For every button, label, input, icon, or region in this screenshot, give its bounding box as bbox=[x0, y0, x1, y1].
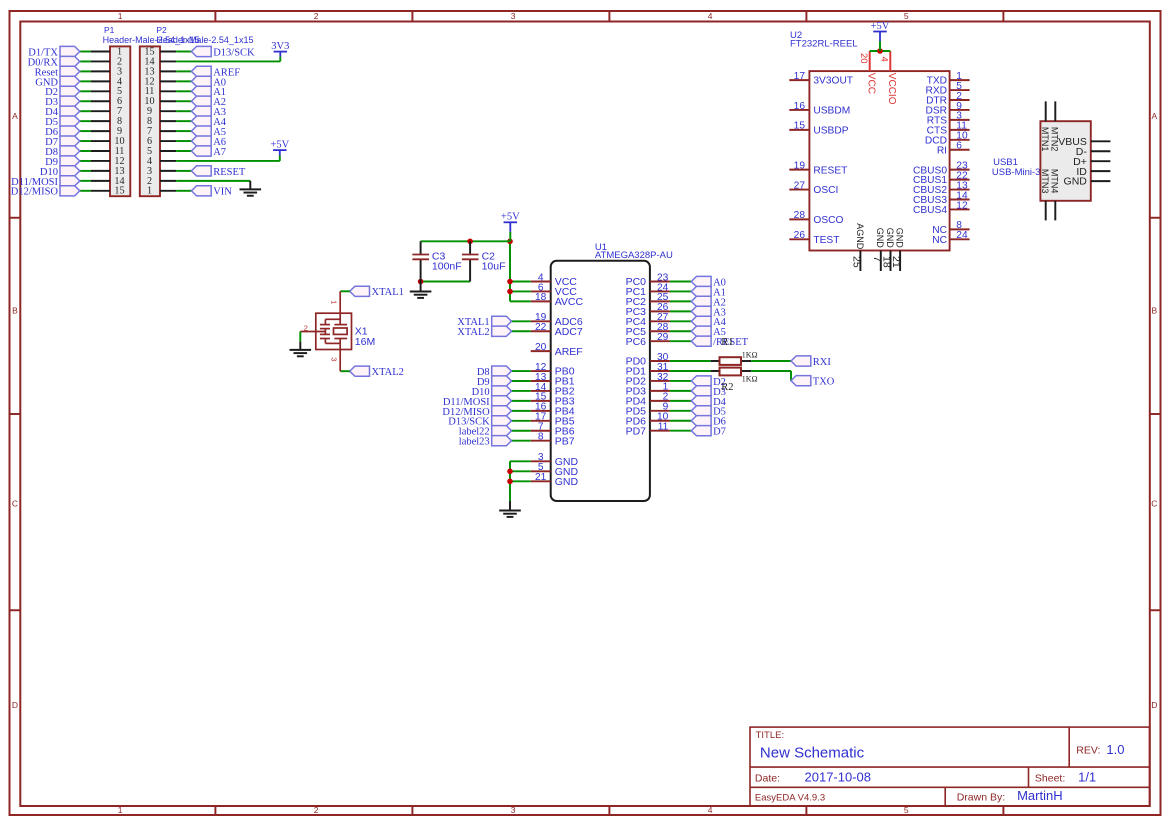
svg-text:OSCI: OSCI bbox=[813, 185, 838, 196]
svg-text:AVCC: AVCC bbox=[555, 296, 584, 308]
svg-text:ADC7: ADC7 bbox=[555, 326, 583, 338]
svg-text:NC: NC bbox=[932, 235, 947, 246]
svg-text:1: 1 bbox=[147, 186, 152, 197]
svg-text:4: 4 bbox=[708, 11, 713, 21]
svg-text:P2: P2 bbox=[156, 25, 167, 35]
svg-text:5: 5 bbox=[904, 11, 909, 21]
svg-text:C: C bbox=[12, 499, 18, 509]
svg-text:FT232RL-REEL: FT232RL-REEL bbox=[790, 39, 858, 50]
svg-text:CBUS4: CBUS4 bbox=[913, 205, 947, 216]
svg-text:3: 3 bbox=[511, 11, 516, 21]
svg-text:P1: P1 bbox=[104, 25, 115, 35]
svg-text:MTN1: MTN1 bbox=[1040, 127, 1050, 151]
svg-text:3: 3 bbox=[511, 805, 516, 815]
svg-text:Header-Male-2.54_1x15: Header-Male-2.54_1x15 bbox=[156, 35, 253, 45]
svg-text:ATMEGA328P-AU: ATMEGA328P-AU bbox=[595, 250, 673, 261]
svg-text:20: 20 bbox=[858, 53, 869, 64]
svg-text:PC6: PC6 bbox=[626, 336, 647, 348]
svg-text:Sheet:: Sheet: bbox=[1035, 773, 1065, 785]
svg-text:15: 15 bbox=[114, 186, 124, 197]
svg-text:21: 21 bbox=[535, 472, 547, 483]
svg-text:16: 16 bbox=[794, 101, 806, 112]
svg-text:RXI: RXI bbox=[813, 357, 832, 368]
svg-text:REV:: REV: bbox=[1076, 745, 1100, 757]
svg-text:RESET: RESET bbox=[813, 165, 847, 176]
svg-text:21: 21 bbox=[890, 256, 902, 268]
svg-text:1KΩ: 1KΩ bbox=[742, 375, 758, 384]
svg-text:8: 8 bbox=[538, 432, 544, 443]
svg-text:2: 2 bbox=[304, 324, 308, 333]
svg-text:B: B bbox=[12, 306, 18, 316]
svg-text:Drawn By:: Drawn By: bbox=[957, 792, 1005, 804]
svg-text:A7: A7 bbox=[213, 147, 226, 158]
svg-text:R2: R2 bbox=[721, 382, 733, 393]
svg-text:RESET: RESET bbox=[213, 167, 246, 178]
svg-text:D: D bbox=[12, 700, 18, 710]
svg-text:100nF: 100nF bbox=[432, 261, 462, 273]
svg-text:1: 1 bbox=[330, 300, 339, 304]
svg-text:OSCO: OSCO bbox=[813, 215, 843, 226]
svg-text:1: 1 bbox=[118, 805, 123, 815]
svg-text:MartinH: MartinH bbox=[1017, 788, 1063, 803]
svg-text:B: B bbox=[1151, 306, 1157, 316]
svg-text:Date:: Date: bbox=[755, 773, 780, 785]
svg-text:3V3OUT: 3V3OUT bbox=[813, 76, 853, 87]
svg-text:VCCIO: VCCIO bbox=[886, 73, 897, 105]
svg-text:15: 15 bbox=[794, 121, 806, 132]
svg-text:3V3: 3V3 bbox=[271, 41, 289, 52]
svg-text:4: 4 bbox=[879, 57, 890, 62]
svg-text:A: A bbox=[12, 111, 18, 121]
svg-text:+5V: +5V bbox=[501, 212, 520, 223]
svg-text:24: 24 bbox=[956, 230, 968, 241]
svg-text:AGND: AGND bbox=[855, 223, 865, 250]
svg-text:MTN3: MTN3 bbox=[1040, 169, 1050, 194]
svg-text:4: 4 bbox=[708, 805, 713, 815]
svg-text:USBDM: USBDM bbox=[813, 106, 850, 117]
svg-text:GND: GND bbox=[895, 228, 905, 249]
svg-text:TXO: TXO bbox=[813, 377, 835, 388]
svg-text:1.0: 1.0 bbox=[1106, 742, 1124, 757]
svg-text:C: C bbox=[1151, 499, 1157, 509]
svg-text:25: 25 bbox=[850, 256, 862, 268]
svg-text:2017-10-08: 2017-10-08 bbox=[805, 770, 872, 785]
svg-text:12: 12 bbox=[956, 200, 968, 211]
svg-text:16M: 16M bbox=[355, 336, 375, 348]
svg-text:3: 3 bbox=[330, 357, 339, 361]
svg-text:22: 22 bbox=[535, 322, 547, 333]
svg-text:D: D bbox=[1151, 700, 1157, 710]
svg-text:D12/MISO: D12/MISO bbox=[11, 187, 59, 198]
svg-text:+5V: +5V bbox=[270, 140, 289, 151]
svg-text:2: 2 bbox=[314, 805, 319, 815]
svg-text:USB-Mini-3: USB-Mini-3 bbox=[992, 167, 1041, 178]
svg-text:GND: GND bbox=[1064, 176, 1088, 188]
svg-text:GND: GND bbox=[875, 228, 885, 249]
svg-text:10uF: 10uF bbox=[482, 261, 506, 273]
svg-text:MTN2: MTN2 bbox=[1049, 127, 1059, 151]
svg-text:19: 19 bbox=[794, 160, 806, 171]
svg-text:D7: D7 bbox=[713, 427, 726, 438]
svg-text:29: 29 bbox=[657, 332, 669, 343]
svg-text:XTAL2: XTAL2 bbox=[372, 367, 404, 378]
svg-text:TEST: TEST bbox=[813, 235, 839, 246]
svg-text:GND: GND bbox=[555, 476, 579, 488]
svg-text:PB7: PB7 bbox=[555, 435, 575, 447]
svg-text:2: 2 bbox=[314, 11, 319, 21]
svg-text:RI: RI bbox=[937, 145, 947, 156]
svg-text:AREF: AREF bbox=[555, 346, 583, 358]
svg-text:VIN: VIN bbox=[213, 187, 232, 198]
svg-text:MTN4: MTN4 bbox=[1049, 169, 1059, 194]
svg-text:+5V: +5V bbox=[871, 21, 890, 32]
svg-text:New Schematic: New Schematic bbox=[760, 745, 865, 762]
svg-text:11: 11 bbox=[658, 422, 669, 433]
svg-text:1/1: 1/1 bbox=[1078, 770, 1096, 785]
svg-text:label23: label23 bbox=[459, 437, 490, 448]
svg-text:26: 26 bbox=[794, 230, 806, 241]
svg-text:VCC: VCC bbox=[865, 73, 876, 94]
svg-text:27: 27 bbox=[794, 180, 806, 191]
svg-text:PD7: PD7 bbox=[626, 425, 647, 437]
svg-text:TITLE:: TITLE: bbox=[756, 730, 785, 741]
svg-text:1KΩ: 1KΩ bbox=[742, 350, 758, 359]
svg-text:18: 18 bbox=[535, 292, 547, 303]
svg-text:6: 6 bbox=[956, 141, 962, 152]
svg-text:R1: R1 bbox=[721, 337, 733, 348]
svg-text:GND: GND bbox=[885, 228, 895, 249]
svg-text:28: 28 bbox=[794, 210, 806, 221]
svg-text:17: 17 bbox=[794, 71, 806, 82]
svg-text:D13/SCK: D13/SCK bbox=[213, 47, 255, 58]
svg-text:1: 1 bbox=[118, 11, 123, 21]
svg-text:XTAL1: XTAL1 bbox=[372, 287, 404, 298]
svg-text:EasyEDA V4.9.3: EasyEDA V4.9.3 bbox=[755, 793, 825, 804]
svg-text:20: 20 bbox=[535, 342, 547, 353]
svg-text:A: A bbox=[1151, 111, 1157, 121]
svg-text:USBDP: USBDP bbox=[813, 125, 848, 136]
svg-text:XTAL2: XTAL2 bbox=[457, 327, 489, 338]
